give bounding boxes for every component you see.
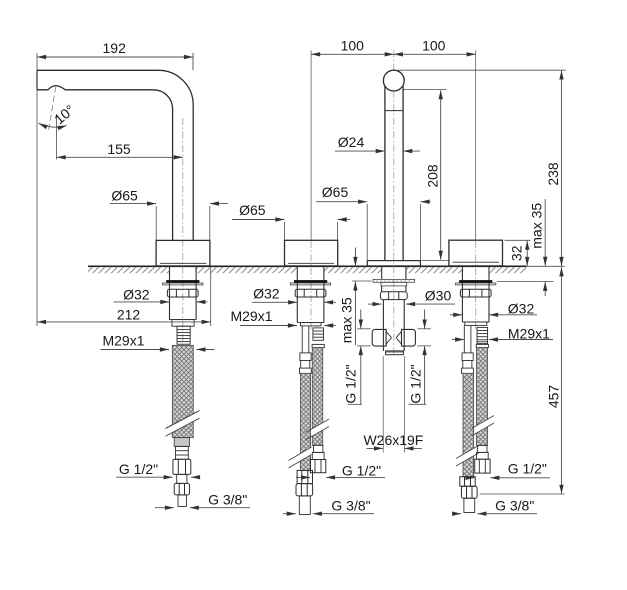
- spout hose neck: [177, 474, 187, 483]
- left valve metal washer: [290, 283, 330, 285]
- dimension G 1/2 left valve hose: [296, 476, 310, 478]
- svg-text:G 3/8": G 3/8": [495, 498, 534, 514]
- middle escutcheon plate: [367, 261, 420, 266]
- dimension 457 hose length: [561, 267, 563, 494]
- spout rubber washer (dark): [166, 280, 199, 283]
- dimension 100 right: [394, 53, 476, 55]
- dimension G 1/2 tee right: [424, 310, 426, 329]
- right valve rubber washer (dark): [459, 280, 492, 283]
- middle outlet tube down to tee: [383, 300, 404, 351]
- svg-text:Ø65: Ø65: [322, 184, 349, 200]
- spout angle centerline 10 degrees: [49, 86, 56, 130]
- dimension M29x1 left valve: [240, 325, 297, 327]
- tee bottom W26x19F connector: [386, 351, 404, 355]
- right valve outlet pipe (left) with unions: [462, 325, 474, 373]
- middle shank continues: [382, 286, 406, 292]
- dimension diam 32 right valve: [450, 314, 462, 316]
- svg-text:max 35: max 35: [339, 297, 355, 343]
- dimension G 3/8 left valve hose: [283, 513, 296, 515]
- svg-text:192: 192: [103, 40, 127, 56]
- middle toothed washer: [373, 279, 415, 286]
- svg-text:Ø30: Ø30: [425, 288, 452, 304]
- dimension diam 32 spout shank: [114, 301, 170, 303]
- dimension 10 degrees arc: [39, 123, 67, 127]
- spout L-shaped body outline: [37, 70, 193, 240]
- spout flexible braided hose: [166, 345, 200, 437]
- dimension 100 left: [311, 53, 394, 55]
- left valve mounting hex nut: [295, 289, 326, 297]
- right valve threaded shank: [462, 267, 489, 326]
- middle mixer centerline: [393, 50, 395, 356]
- dimension 212: [37, 321, 211, 323]
- svg-text:M29x1: M29x1: [102, 333, 144, 349]
- svg-text:212: 212: [117, 307, 141, 323]
- dimension diam 30: [368, 303, 382, 305]
- svg-text:10°: 10°: [51, 101, 78, 127]
- middle threaded shank: [382, 267, 406, 280]
- spout base cylinder: [156, 240, 210, 266]
- dimension M29x1 right valve: [452, 339, 464, 341]
- countertop deck surface line: [88, 265, 526, 267]
- tee left G 1/2 side port: [372, 329, 391, 346]
- svg-text:G 1/2": G 1/2": [408, 364, 424, 403]
- svg-text:G 3/8": G 3/8": [208, 492, 247, 508]
- left side valve body (second hole): [285, 240, 338, 266]
- dimension max 35 right: [544, 199, 546, 266]
- spout hose G 1/2 hex nut: [173, 459, 191, 474]
- spout hose crimp ferrule: [174, 438, 189, 447]
- svg-text:238: 238: [545, 162, 561, 186]
- svg-text:Ø24: Ø24: [338, 134, 365, 150]
- countertop deck section hatching: [88, 267, 526, 273]
- dimension 32 base height: [526, 241, 528, 266]
- dimension max 35 middle: [354, 248, 356, 267]
- spout hose G 3/8 nut: [174, 483, 189, 495]
- svg-text:Ø32: Ø32: [253, 286, 280, 302]
- svg-text:M29x1: M29x1: [230, 308, 272, 324]
- right side valve body: [449, 240, 503, 266]
- dimension G 1/2 right valve hose: [467, 477, 475, 479]
- svg-text:100: 100: [341, 38, 365, 54]
- svg-text:155: 155: [107, 141, 131, 157]
- left valve right braided hose: [312, 348, 322, 446]
- dimension 238 total height: [561, 70, 563, 266]
- dimension G 1/2 tee left: [360, 310, 362, 329]
- left valve rubber washer (dark): [294, 280, 327, 283]
- spout centerline (riser axis): [182, 118, 184, 352]
- dimension diam 24 stem: [335, 150, 385, 152]
- svg-text:G 1/2": G 1/2": [342, 463, 381, 479]
- spout threaded shank below deck: [170, 267, 197, 326]
- svg-text:G 1/2": G 1/2": [508, 461, 547, 477]
- left valve outlet pipe (left) with unions: [300, 326, 312, 374]
- spout mounting hex nut: [167, 289, 198, 297]
- dimension 208 stem height: [440, 90, 442, 260]
- svg-text:32: 32: [509, 245, 525, 261]
- left valve right hose end connector: [310, 445, 325, 472]
- left valve left braided hose: [301, 373, 311, 470]
- middle mixer knob ball: [383, 70, 404, 91]
- svg-text:Ø65: Ø65: [239, 202, 266, 218]
- right valve centerline: [475, 241, 477, 330]
- spout metal washer: [163, 283, 203, 285]
- svg-text:G 1/2": G 1/2": [343, 364, 359, 403]
- left valve supply hose threaded top (right): [312, 328, 324, 348]
- right valve right hose end connector: [475, 445, 490, 473]
- svg-text:208: 208: [425, 164, 441, 188]
- svg-text:Ø32: Ø32: [123, 287, 150, 303]
- spout hose tail tube: [178, 495, 186, 507]
- spout M29 threaded connector tube: [177, 326, 190, 344]
- middle lock nut: [380, 292, 407, 300]
- dimension W26x19F: [367, 447, 384, 449]
- right valve mounting hex nut: [460, 289, 491, 297]
- left valve centerline: [310, 241, 312, 330]
- dimension G 1/2 spout hose: [116, 476, 173, 478]
- spout hose break symbol: [166, 411, 200, 437]
- dimension G 3/8 spout hose: [155, 507, 174, 509]
- right valve metal washer: [456, 283, 496, 285]
- svg-text:100: 100: [422, 38, 446, 54]
- dimension G 3/8 right valve hose: [454, 513, 461, 515]
- right valve right braided hose: [477, 348, 488, 446]
- tee right G 1/2 side port: [396, 329, 415, 346]
- right valve supply hose threaded top (right): [476, 327, 488, 347]
- dimension 192: [37, 56, 193, 58]
- dimension M29x1 spout: [101, 349, 170, 351]
- svg-text:Ø32: Ø32: [508, 300, 535, 316]
- dimension diam 65 middle plate: [316, 201, 367, 203]
- svg-text:M29x1: M29x1: [508, 326, 550, 342]
- dimension diam 65 left valve: [232, 219, 284, 221]
- left valve threaded shank: [297, 267, 324, 326]
- svg-text:457: 457: [546, 385, 562, 409]
- right valve left braided hose: [463, 373, 474, 476]
- left valve left hose end nuts and tail: [296, 470, 313, 514]
- left valve hose break symbols: [289, 419, 330, 468]
- svg-text:W26x19F: W26x19F: [363, 432, 423, 448]
- middle mixer stem: [385, 86, 403, 261]
- svg-text:G 1/2": G 1/2": [119, 461, 158, 477]
- spout hose end cylinder: [176, 446, 189, 459]
- dimension diam 32 left valve: [252, 301, 297, 303]
- dimension 155: [57, 156, 183, 158]
- svg-text:G 3/8": G 3/8": [331, 498, 370, 514]
- svg-text:max 35: max 35: [529, 203, 545, 249]
- right valve hose break symbols: [456, 416, 494, 467]
- right valve left hose end nuts and tail: [460, 477, 477, 513]
- svg-text:Ø65: Ø65: [111, 188, 138, 204]
- dimension diam 65 spout: [110, 203, 156, 205]
